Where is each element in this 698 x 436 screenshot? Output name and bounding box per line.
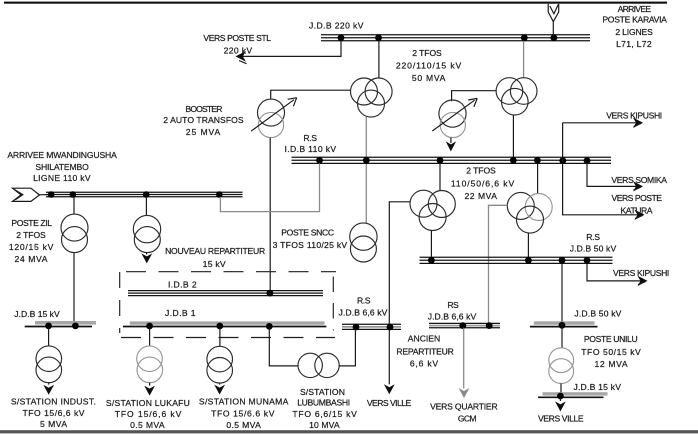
node J.D.B 15 / Indust tap bbox=[45, 323, 52, 330]
busbar J.D.B 1 (thick) bbox=[130, 321, 325, 324]
wire KIPUSHI/KATURA riser bbox=[563, 123, 642, 215]
svg-text:L71, L72: L71, L72 bbox=[616, 39, 652, 49]
transformer U3 (2 TFOS 220/110/15 kV 50 MVA, unit 2) bbox=[496, 78, 537, 115]
arrowhead VERS KIPUSHI bottom bbox=[638, 276, 648, 286]
line arrival symbol Karavia (double-V) bbox=[548, 4, 559, 22]
node 220 bus / arrivee Karavia bbox=[551, 34, 558, 41]
U2 output down arrow bbox=[450, 138, 452, 143]
wire 50 bus to J.D.B 50 bar bbox=[561, 263, 563, 321]
svg-text:VERS VILLE: VERS VILLE bbox=[538, 414, 584, 424]
node 110 bus / U1 secondary and SNCC bbox=[363, 157, 370, 164]
svg-text:2 TFOS: 2 TFOS bbox=[466, 166, 496, 176]
regulating transformer U2 (middle, with arrow) bbox=[439, 100, 466, 138]
node 110 bus / U3 secondary bbox=[510, 157, 517, 164]
svg-text:120/15 kV: 120/15 kV bbox=[9, 242, 54, 252]
svg-text:220 kV: 220 kV bbox=[224, 45, 253, 55]
wire J.D.B 50 to Poste Unilu transformer bbox=[561, 324, 563, 348]
wire 220 bus to transformer U3 primary bbox=[523, 41, 525, 78]
svg-text:KATURA: KATURA bbox=[621, 206, 653, 216]
svg-text:J.D.B 15 kV: J.D.B 15 kV bbox=[573, 382, 621, 392]
wire VERS VILLE (left) below R.S 6,6 bar bbox=[388, 329, 390, 384]
svg-text:25 MVA: 25 MVA bbox=[186, 127, 221, 137]
busbar J.D.B 15 kV (left, thick) bbox=[35, 321, 96, 325]
node 110 bus / Mwandingusha feed bbox=[316, 157, 323, 164]
arrowhead VERS POSTE STL (left) bbox=[236, 51, 247, 62]
svg-text:GCM: GCM bbox=[458, 414, 477, 424]
svg-text:3 TFOS 110/25 kV: 3 TFOS 110/25 kV bbox=[273, 240, 348, 250]
wire regulating transformer U2 top to U3 tertiary bbox=[452, 91, 497, 102]
wire booster bottom down to I.D.B 2 bbox=[269, 138, 271, 292]
wire J.D.B 1 to S/Station Munama transformer bbox=[219, 327, 221, 346]
svg-text:J.D.B 50 kV: J.D.B 50 kV bbox=[570, 244, 617, 254]
transformer T5 (2 TFOS 110/50/6,6 kV 22 MVA, unit 1) bbox=[410, 190, 455, 230]
busbar J.D.B 220 kV bbox=[321, 35, 590, 41]
wire Karavia V to 220 bus bbox=[552, 22, 554, 35]
transformer U1 (2 TFOS 220/110/15 kV 50 MVA, unit 1) bbox=[351, 78, 393, 117]
node J.D.B 1 / Lukafu tap bbox=[146, 323, 153, 330]
line arrival symbol Mwandingusha (feather arrow) bbox=[13, 188, 40, 201]
transformer T11 S/STATION INDUST bbox=[36, 346, 62, 383]
svg-text:VERS QUARTIER: VERS QUARTIER bbox=[430, 402, 497, 412]
svg-text:ARRIVEE MWANDINGUSHA: ARRIVEE MWANDINGUSHA bbox=[7, 150, 117, 160]
svg-text:5 MVA: 5 MVA bbox=[40, 419, 68, 429]
wire VERS KIPUSHI (50 kV) bbox=[587, 263, 645, 281]
svg-text:TFO 15/6,6 kV: TFO 15/6,6 kV bbox=[23, 408, 86, 418]
svg-text:2 TFOS: 2 TFOS bbox=[16, 230, 46, 240]
svg-text:VERS POSTE: VERS POSTE bbox=[611, 193, 662, 203]
node R.S 6,6 / Lubumbashi link bbox=[353, 324, 360, 331]
VERS VILLE right arrow bbox=[559, 398, 561, 401]
svg-text:LUBUMBASHI: LUBUMBASHI bbox=[297, 398, 350, 408]
svg-text:6,6 kV: 6,6 kV bbox=[410, 359, 439, 369]
wire T5 secondary to 50 bus bbox=[430, 231, 432, 257]
wire J.D.B 1 to Lubumbashi transformer bbox=[269, 327, 298, 366]
T12 down arrow bbox=[149, 383, 151, 386]
svg-text:TFO 15/6.6 kV: TFO 15/6.6 kV bbox=[211, 408, 275, 418]
svg-text:S/STATION INDUST.: S/STATION INDUST. bbox=[11, 397, 96, 407]
svg-text:R.S: R.S bbox=[357, 296, 371, 306]
svg-text:SHILATEMBO: SHILATEMBO bbox=[35, 162, 89, 172]
node 50 bus / T6 secondary bbox=[525, 257, 532, 264]
svg-text:2 TFOS: 2 TFOS bbox=[412, 48, 442, 58]
booster autotransformer (2 AUTO TRANSFOS 25 MVA) bbox=[258, 99, 285, 138]
svg-text:I.D.B 2: I.D.B 2 bbox=[168, 280, 197, 290]
node J.D.B 15 / ZIL secondary bbox=[72, 323, 79, 330]
svg-text:15 kV: 15 kV bbox=[203, 259, 226, 269]
node Mwandingusha line / link to 110 bus bbox=[216, 191, 223, 198]
busbar R.S J.D.B 6,6 kV (left) bbox=[342, 324, 401, 329]
node RS 6,6 / T6 tertiary bbox=[486, 322, 493, 329]
svg-text:POSTE UNILU: POSTE UNILU bbox=[584, 334, 638, 344]
node on I.D.B 2 (booster feed) bbox=[267, 290, 274, 297]
arrowhead VERS POSTE KATURA bbox=[635, 210, 645, 220]
svg-text:ANCIEN: ANCIEN bbox=[408, 334, 440, 344]
wire 110 bus to transformer T6 (110/50/6,6 no.2) bbox=[537, 163, 539, 193]
T13 down arrow bbox=[219, 383, 221, 385]
arrowhead VERS VILLE left bbox=[384, 384, 395, 394]
wire booster top to U1 tertiary bbox=[271, 90, 351, 99]
node 50 bus / J.D.B 50 feeder bbox=[559, 257, 566, 264]
transformer T14 POSTE UNILU (TFO 50/15 kV 12 MVA) bbox=[549, 348, 574, 384]
svg-text:TFO 50/15 kV: TFO 50/15 kV bbox=[581, 347, 641, 357]
busbar ligne 110 kV Mwandingusha bbox=[46, 192, 243, 196]
svg-text:RS: RS bbox=[447, 300, 459, 310]
node J.D.B 1 / Munama tap bbox=[216, 323, 223, 330]
node Mwandingusha line / T9 tap bbox=[143, 191, 150, 198]
wire J.D.B 15 to S/Station Indust transformer bbox=[48, 327, 50, 346]
svg-text:VERS SOMIKA: VERS SOMIKA bbox=[611, 175, 667, 185]
node Mwandingusha line / arrival stub bbox=[48, 191, 55, 198]
svg-text:24 MVA: 24 MVA bbox=[15, 254, 49, 264]
wire Mwandingusha line to R.S 110 bus bbox=[220, 163, 319, 211]
transformer T7 POSTE SNCC bbox=[350, 223, 377, 262]
node 110 bus / Kipushi-Katura riser bbox=[559, 157, 566, 164]
svg-text:S/STATION LUKAFU: S/STATION LUKAFU bbox=[106, 398, 190, 408]
svg-text:REPARTITEUR: REPARTITEUR bbox=[396, 347, 453, 357]
node R.S 6,6 / T5 tertiary and Vers Ville bbox=[387, 324, 394, 331]
U2 regulation arrow bbox=[432, 100, 474, 131]
wire Lubumbashi transformer to R.S J.D.B 6,6 bar bbox=[339, 329, 355, 366]
svg-text:TFO 6,6/15 kV: TFO 6,6/15 kV bbox=[292, 409, 357, 419]
busbar R.S J.D.B 50 kV bbox=[420, 257, 613, 263]
wire VERS POSTE STL bbox=[239, 41, 342, 57]
arrowhead VERS KIPUSHI top bbox=[633, 118, 643, 128]
wire VERS SOMIKA bbox=[587, 163, 640, 186]
svg-text:VERS KIPUSHI: VERS KIPUSHI bbox=[613, 268, 669, 278]
svg-text:S/STATION: S/STATION bbox=[300, 387, 345, 397]
node on J.D.B 50 bar bbox=[559, 322, 566, 329]
svg-text:I.D.B 110 kV: I.D.B 110 kV bbox=[285, 144, 337, 154]
svg-text:POSTE ZIL: POSTE ZIL bbox=[11, 218, 52, 228]
svg-text:R.S: R.S bbox=[586, 232, 600, 242]
svg-text:LIGNE 110 kV: LIGNE 110 kV bbox=[33, 173, 91, 183]
busbar J.D.B 15 kV (bottom right, thick) bbox=[543, 392, 608, 395]
booster regulation arrow bbox=[251, 100, 294, 132]
wire J.D.B 1 to S/Station Lukafu transformer bbox=[149, 327, 151, 346]
wire 220 bus to transformer U1 primary bbox=[378, 41, 380, 78]
svg-text:2 LIGNES: 2 LIGNES bbox=[615, 27, 653, 37]
svg-text:VERS KIPUSHI: VERS KIPUSHI bbox=[606, 111, 662, 121]
node Mwandingusha line / Poste ZIL tap bbox=[70, 191, 77, 198]
wire T6 secondary to 50 bus bbox=[527, 233, 529, 257]
svg-text:NOUVEAU REPARTITEUR: NOUVEAU REPARTITEUR bbox=[165, 246, 265, 256]
transformer T9 (feeds nouveau repartiteur) bbox=[133, 215, 160, 252]
svg-text:0.5 MVA: 0.5 MVA bbox=[130, 420, 165, 430]
node J.D.B 1 / Lubumbashi tap bbox=[266, 323, 273, 330]
svg-text:220/110/15 kV: 220/110/15 kV bbox=[396, 61, 462, 71]
svg-text:50 MVA: 50 MVA bbox=[412, 73, 446, 83]
svg-text:J.D.B 6,6 kV: J.D.B 6,6 kV bbox=[339, 308, 388, 318]
svg-text:BOOSTER: BOOSTER bbox=[185, 104, 222, 114]
top border frame line bbox=[4, 2, 667, 4]
svg-text:0.5 MVA: 0.5 MVA bbox=[226, 420, 261, 430]
busbar RS J.D.B 6,6 kV (right) bbox=[429, 323, 500, 327]
node 50 bus / T5 secondary bbox=[428, 257, 435, 264]
svg-text:J.D.B 15 kV: J.D.B 15 kV bbox=[14, 309, 60, 319]
svg-text:J.D.B 50 kV: J.D.B 50 kV bbox=[574, 309, 621, 319]
svg-text:110/50/6,6 kV: 110/50/6,6 kV bbox=[451, 179, 515, 189]
transformer T10 S/STATION LUBUMBASHI (horizontal) bbox=[298, 353, 339, 377]
svg-text:J.D.B 6,6 kV: J.D.B 6,6 kV bbox=[428, 311, 477, 321]
node 110 bus / T5 primary bbox=[437, 157, 444, 164]
svg-text:22 MVA: 22 MVA bbox=[465, 191, 498, 201]
wire Unilu secondary to J.D.B 15 bar bbox=[560, 384, 562, 393]
T11 down arrow bbox=[48, 383, 50, 385]
transformer T8 POSTE ZIL (120/15 kV 24 MVA) bbox=[61, 214, 88, 253]
svg-text:POSTE SNCC: POSTE SNCC bbox=[281, 228, 334, 238]
wire T6 tertiary to RS J.D.B 6,6 bar (gray, crosses 50 bus) bbox=[489, 205, 508, 324]
svg-text:10 MVA: 10 MVA bbox=[309, 420, 340, 430]
transformer T13 S/STATION MUNAMA bbox=[207, 346, 233, 383]
node 110 bus / Somika tap bbox=[584, 157, 591, 164]
wire T5 tertiary to R.S J.D.B 6,6 bar bbox=[389, 202, 410, 325]
svg-text:J.D.B 220 kV: J.D.B 220 kV bbox=[309, 20, 364, 30]
node 220 bus / U1 primary tap bbox=[375, 34, 382, 41]
wire Mwandingusha to POSTE ZIL transformer bbox=[73, 197, 75, 215]
busbar R.S I.D.B 110 kV bbox=[292, 157, 612, 163]
svg-text:12 MVA: 12 MVA bbox=[594, 359, 628, 369]
bottom border frame line bbox=[0, 430, 698, 433]
node RS 6,6 / Quartier GCM tap bbox=[459, 322, 466, 329]
arrowhead VERS SOMIKA bbox=[633, 181, 643, 191]
node 110 bus / T6 primary bbox=[534, 157, 541, 164]
svg-text:J.D.B 1: J.D.B 1 bbox=[165, 308, 196, 318]
wire Mwandingusha to nouveau repartiteur transformer bbox=[145, 197, 147, 216]
wire VERS KIPUSHI (top) bbox=[563, 122, 640, 124]
dashed box NOUVEAU REPARTITEUR bbox=[120, 272, 336, 338]
T9 output down arrow bbox=[146, 253, 148, 255]
svg-text:2 AUTO TRANSFOS: 2 AUTO TRANSFOS bbox=[163, 115, 244, 125]
wire arrival stub bbox=[40, 194, 49, 196]
svg-text:ARRIVEE: ARRIVEE bbox=[618, 4, 652, 14]
wire VERS QUARTIER GCM (gray) bbox=[463, 328, 465, 389]
wire U3 secondary down to 110 bus bbox=[512, 115, 514, 158]
node 220 bus / U3 primary tap bbox=[521, 34, 528, 41]
transformer T6 (2 TFOS 110/50/6,6 kV 22 MVA, unit 2) bbox=[507, 192, 552, 233]
wire ZIL secondary to J.D.B 15 bar bbox=[73, 253, 75, 321]
svg-text:VERS VILLE: VERS VILLE bbox=[367, 398, 412, 408]
svg-text:R.S: R.S bbox=[303, 133, 317, 143]
svg-text:VERS POSTE STL: VERS POSTE STL bbox=[203, 33, 271, 43]
wire 110 bus to transformer T5 (110/50/6,6 no.1) bbox=[439, 163, 441, 190]
svg-text:S/STATION MUNAMA: S/STATION MUNAMA bbox=[199, 397, 289, 407]
wire U1 secondary down to 110 bus and SNCC transformer bbox=[365, 117, 367, 223]
svg-text:POSTE KARAVIA: POSTE KARAVIA bbox=[602, 14, 667, 24]
transformer T12 S/STATION LUKAFU bbox=[137, 346, 163, 383]
node 50 bus / Kipushi 50kV tap bbox=[584, 257, 591, 264]
arrowhead VERS QUARTIER GCM bbox=[459, 388, 470, 398]
svg-text:TFO 15/6,6 kV: TFO 15/6,6 kV bbox=[115, 409, 182, 419]
node 220 bus / Vers Poste STL tap bbox=[338, 34, 345, 41]
busbar J.D.B 50 kV (bottom, thick) bbox=[534, 321, 595, 325]
node on J.D.B 15 right bbox=[557, 393, 564, 400]
busbar I.D.B 2 bbox=[128, 291, 323, 296]
